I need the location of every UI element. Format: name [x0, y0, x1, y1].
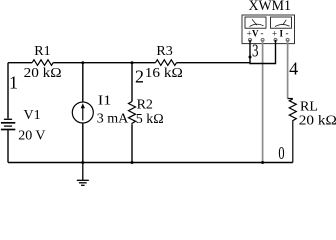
wire V- terminal down to bottom wire (gray) [262, 40, 264, 163]
current source I1 [72, 102, 93, 123]
svg-text:I: I [279, 29, 283, 39]
svg-text:I1: I1 [98, 93, 111, 108]
svg-text:R1: R1 [34, 44, 50, 59]
wattmeter voltage meter face [245, 17, 266, 28]
svg-text:3 mA: 3 mA [97, 112, 129, 127]
wire I- terminal down to RL (gray, node 4) [287, 40, 289, 99]
svg-text:1: 1 [9, 72, 18, 92]
wire top-left horizontal (node 1 to R1) [8, 62, 32, 64]
junction dot bottom wire / I1 branch [81, 161, 84, 164]
wattmeter terminal pins [249, 38, 290, 41]
resistor R3 [156, 60, 177, 66]
junction dot top wire / R2 branch (node 2) [131, 61, 134, 64]
svg-text:5 kΩ: 5 kΩ [136, 112, 164, 127]
junction dot bottom wire / V- wire [261, 161, 264, 164]
svg-text:0: 0 [278, 143, 284, 163]
resistor R2 [129, 102, 136, 125]
junction dot top wire / I1 branch [81, 61, 84, 64]
wire R2 down to bottom wire [131, 125, 133, 163]
bottom wire (node 0 net) [8, 162, 293, 164]
svg-text:4: 4 [289, 58, 298, 78]
wire I1 down to bottom wire [82, 123, 84, 163]
wire wattmeter +V terminal down and over to +I terminal [250, 40, 276, 64]
svg-text:V: V [252, 29, 259, 39]
wire elbow I- to RL top [288, 98, 293, 100]
svg-text:20 V: 20 V [18, 128, 45, 143]
svg-text:+: + [272, 28, 277, 38]
wire RL down to bottom wire [292, 124, 294, 163]
wire R1 to node 2 [53, 62, 155, 64]
wattmeter XWM1 body [242, 15, 295, 44]
svg-text:XWM1: XWM1 [249, 0, 292, 14]
wire V1 down to bottom wire [7, 130, 9, 162]
junction node 3 dot [249, 56, 252, 59]
wire R3 to wattmeter +V [177, 62, 250, 64]
svg-text:R2: R2 [137, 97, 153, 112]
svg-text:2: 2 [135, 66, 144, 86]
svg-text:20 kΩ: 20 kΩ [299, 113, 336, 128]
junction dot bottom wire / R2 branch [131, 161, 134, 164]
wire node 2 down to R2 [131, 63, 133, 102]
ground [77, 163, 89, 186]
svg-text:16 kΩ: 16 kΩ [145, 66, 183, 81]
wire left vertical (node 1 down to V1) [7, 63, 9, 119]
wire top wire down to I1 [82, 63, 84, 102]
svg-text:-: - [286, 28, 289, 38]
svg-text:20 kΩ: 20 kΩ [24, 66, 62, 81]
resistor RL [289, 99, 296, 124]
svg-text:-: - [261, 28, 264, 38]
battery V1 [1, 119, 15, 129]
resistor R1 [32, 60, 53, 66]
svg-text:R3: R3 [156, 44, 172, 59]
svg-text:+: + [247, 28, 252, 38]
wattmeter current meter face [271, 17, 292, 28]
svg-text:V1: V1 [24, 108, 41, 123]
